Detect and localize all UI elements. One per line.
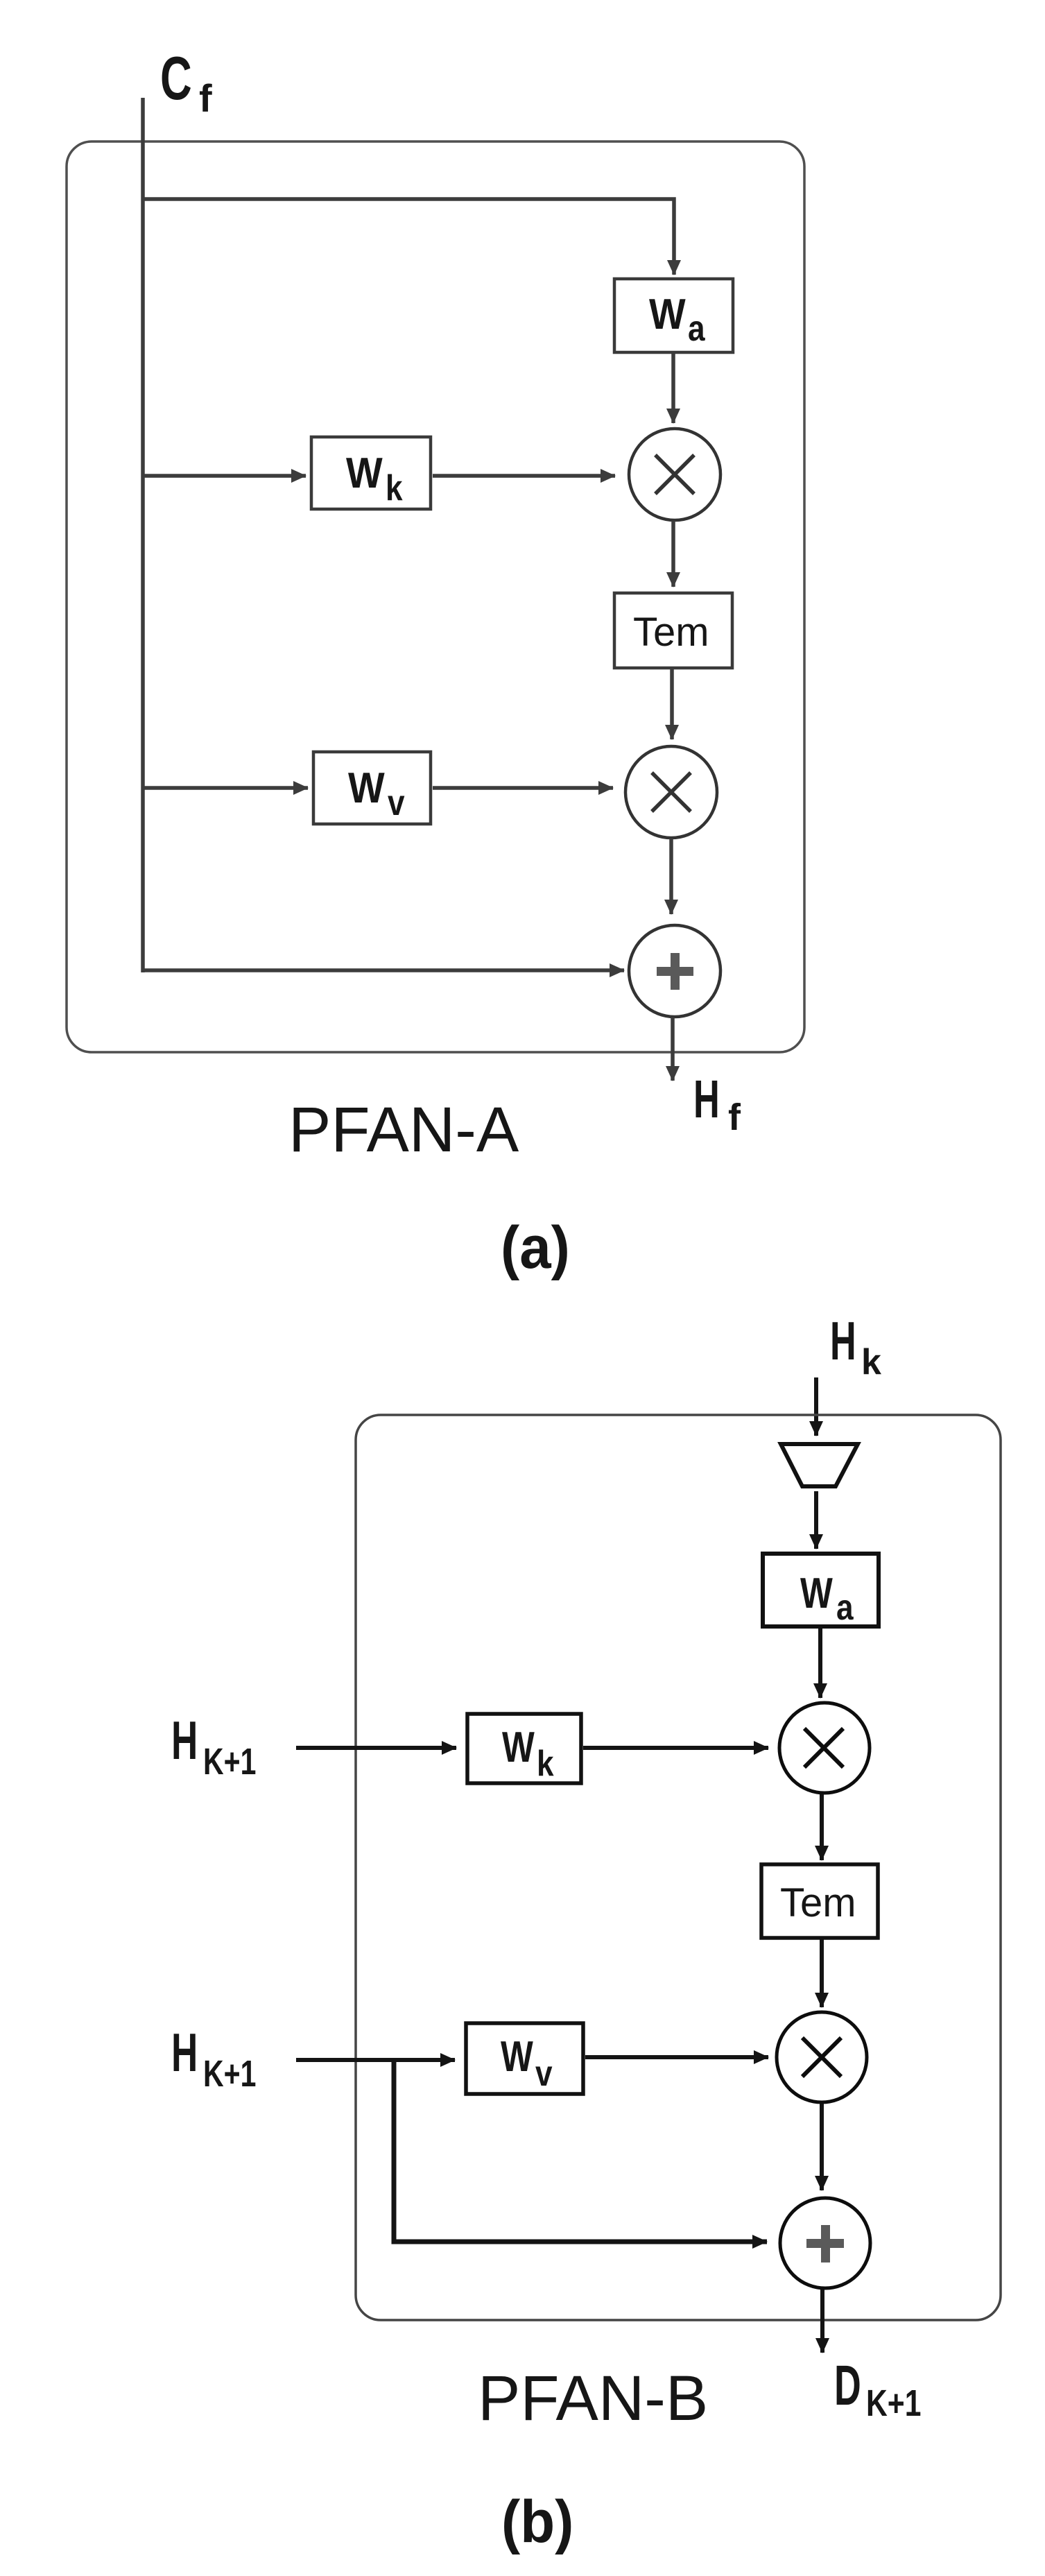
svg-text:Tem: Tem xyxy=(633,610,709,655)
svg-text:W: W xyxy=(800,1569,833,1617)
wire branch to Wk xyxy=(143,474,306,478)
svg-text:H: H xyxy=(171,1711,198,1771)
svg-text:v: v xyxy=(388,783,405,823)
box Wk xyxy=(311,437,431,509)
outer box PFAN-A xyxy=(67,141,804,1052)
box Tem (b) xyxy=(761,1864,878,1938)
arrow Wk to multiplier M1 xyxy=(433,474,615,478)
svg-text:H: H xyxy=(830,1312,856,1372)
arrow Wv to multiplier M4 xyxy=(585,2055,768,2059)
multiplier M4 xyxy=(777,2012,867,2102)
adder A1 xyxy=(629,925,720,1017)
multiplier M3 xyxy=(779,1703,870,1793)
box Wa xyxy=(614,279,733,352)
arrow Wk to multiplier M3 xyxy=(583,1746,768,1750)
wire branch elbow to adder A2 xyxy=(394,2060,767,2242)
wire Cf vertical trunk xyxy=(141,98,145,972)
adder A2 xyxy=(780,2198,870,2288)
svg-text:W: W xyxy=(346,449,383,497)
funnel xyxy=(781,1444,858,1486)
svg-text:D: D xyxy=(834,2353,861,2416)
multiplier M1 xyxy=(629,429,720,520)
arrow Wa to multiplier M3 xyxy=(818,1629,822,1698)
svg-text:C: C xyxy=(160,45,192,113)
box Wa (b) xyxy=(763,1554,879,1628)
svg-text:Tem: Tem xyxy=(780,1880,856,1925)
arrow HK+1 to Wk (b) xyxy=(296,1746,456,1750)
svg-text:W: W xyxy=(502,1723,535,1771)
arrow Tem to multiplier M4 xyxy=(820,1939,824,2007)
arrow M3 to Tem (b) xyxy=(820,1794,824,1860)
svg-text:K+1: K+1 xyxy=(203,2054,256,2095)
svg-text:K+1: K+1 xyxy=(866,2382,921,2424)
box Wv (b) xyxy=(466,2023,583,2094)
outer box PFAN-B xyxy=(356,1415,1001,2320)
multiplier M2 xyxy=(625,746,717,838)
svg-text:(b): (b) xyxy=(501,2488,573,2554)
svg-text:W: W xyxy=(501,2032,533,2081)
svg-text:k: k xyxy=(861,1342,881,1382)
svg-text:f: f xyxy=(199,76,212,120)
arrow Wa to multiplier M1 xyxy=(671,354,675,423)
svg-text:W: W xyxy=(649,291,686,338)
box Tem xyxy=(614,593,732,668)
svg-text:H: H xyxy=(693,1069,720,1129)
arrow HK+1 to Wv (b) xyxy=(296,2058,455,2062)
svg-text:a: a xyxy=(836,1588,854,1628)
box Wk (b) xyxy=(467,1714,581,1784)
svg-text:k: k xyxy=(386,468,403,508)
arrow M1 to Tem xyxy=(671,521,675,587)
svg-text:K+1: K+1 xyxy=(203,1742,256,1783)
svg-text:(a): (a) xyxy=(501,1214,570,1280)
box Wv xyxy=(313,752,431,824)
arrow adder A1 to Hf xyxy=(671,1017,675,1081)
arrow funnel to Wa xyxy=(814,1491,818,1549)
arrow M4 to adder A2 xyxy=(820,2104,824,2190)
svg-text:f: f xyxy=(728,1097,741,1138)
arrow Hk into box xyxy=(814,1377,818,1436)
arrow adder A2 to DK+1 xyxy=(820,2290,824,2353)
arrow Wv to multiplier M2 xyxy=(433,786,613,790)
svg-text:a: a xyxy=(688,309,706,349)
svg-text:PFAN-A: PFAN-A xyxy=(288,1094,519,1165)
arrow Tem to multiplier M2 xyxy=(670,669,674,739)
svg-text:v: v xyxy=(535,2054,553,2094)
arrow M2 to adder A1 xyxy=(669,839,673,914)
wire branch to Wa xyxy=(143,199,674,275)
wire branch to Wv xyxy=(143,786,308,790)
svg-text:H: H xyxy=(171,2023,198,2084)
svg-text:k: k xyxy=(537,1744,554,1784)
wire bottom elbow to adder A1 xyxy=(141,968,624,972)
svg-text:W: W xyxy=(348,764,385,812)
svg-text:PFAN-B: PFAN-B xyxy=(478,2363,708,2434)
